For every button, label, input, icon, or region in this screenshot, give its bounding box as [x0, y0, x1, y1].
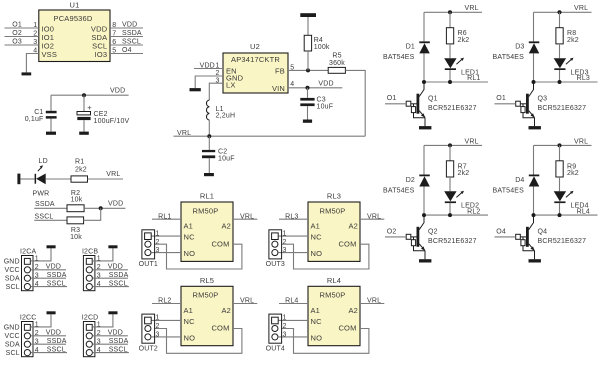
- ground Q1: [419, 126, 431, 129]
- svg-text:2,2uH: 2,2uH: [216, 112, 236, 119]
- wire header pin 1 to ground: [30, 314, 51, 327]
- svg-text:A1: A1: [311, 222, 321, 231]
- svg-text:SSDA: SSDA: [47, 338, 67, 345]
- svg-text:VCC: VCC: [4, 333, 19, 340]
- svg-text:RL1: RL1: [158, 213, 171, 220]
- svg-text:RL4: RL4: [577, 208, 590, 215]
- svg-text:A2: A2: [348, 222, 358, 231]
- junction D4-node: [532, 213, 536, 217]
- svg-text:RL5: RL5: [200, 276, 214, 285]
- wire: [449, 203, 451, 215]
- node RL2 (relay A1): [152, 298, 181, 305]
- svg-text:3: 3: [156, 332, 160, 339]
- svg-text:10uF: 10uF: [218, 156, 235, 163]
- svg-text:BCR521E6327: BCR521E6327: [538, 238, 587, 245]
- junction LED1-node: [448, 80, 452, 84]
- svg-text:1: 1: [35, 256, 39, 263]
- svg-text:A1: A1: [184, 306, 194, 315]
- connector OUT3: [266, 230, 287, 268]
- wire NC to header pin 1: [279, 235, 308, 237]
- wire U2 GND pin 2 to ground: [195, 76, 223, 88]
- svg-text:2k2: 2k2: [567, 37, 579, 44]
- svg-text:PWR: PWR: [33, 190, 50, 197]
- capacitor C3 10uF: [300, 88, 333, 120]
- LED LED4: [554, 191, 589, 210]
- node SSCL (header pin 4): [31, 280, 68, 287]
- svg-text:D1: D1: [406, 44, 415, 51]
- svg-text:BCR521E6327: BCR521E6327: [428, 238, 477, 245]
- wire: [533, 53, 535, 82]
- svg-text:C1: C1: [34, 109, 43, 116]
- junction VRL-R9: [558, 143, 562, 147]
- svg-text:SSDA: SSDA: [35, 201, 55, 208]
- svg-text:RL3: RL3: [577, 75, 590, 82]
- wire: [533, 145, 535, 174]
- wire U1 VSS to ground: [26, 54, 38, 73]
- wire: [559, 44, 561, 58]
- node SSDA (header pin 3): [92, 338, 128, 345]
- resistor R5 360k: [328, 53, 345, 74]
- svg-text:2k2: 2k2: [75, 166, 87, 173]
- svg-text:FB: FB: [275, 67, 285, 76]
- resistor R1 2k2: [71, 158, 88, 182]
- svg-text:SCL: SCL: [6, 350, 20, 357]
- svg-text:VRL: VRL: [574, 5, 588, 12]
- svg-text:360k: 360k: [329, 60, 345, 67]
- node O2 (Q2 base): [385, 228, 406, 237]
- svg-text:A2: A2: [221, 222, 231, 231]
- svg-text:O3: O3: [12, 39, 22, 46]
- wire COM to header pin 2: [155, 244, 242, 269]
- wire: [307, 17, 309, 35]
- svg-text:U1: U1: [70, 1, 80, 10]
- svg-text:BCR521E6327: BCR521E6327: [428, 105, 477, 112]
- ground I2CD: [108, 311, 117, 314]
- svg-text:OUT3: OUT3: [266, 261, 285, 268]
- wire: [423, 53, 425, 82]
- node O3 (U1 pin 3): [5, 39, 39, 46]
- junction D2-node: [422, 213, 426, 217]
- ground I2CC: [47, 311, 56, 314]
- node RL1: [424, 75, 488, 82]
- node O4 (Q4 base): [495, 228, 516, 237]
- svg-text:NC: NC: [311, 317, 323, 326]
- svg-text:I2CC: I2CC: [20, 314, 37, 321]
- node SSDA (header pin 3): [31, 272, 67, 279]
- connector I2CD: [82, 314, 101, 356]
- node VDD rail: [51, 87, 129, 95]
- node VRL (relay A2): [360, 213, 384, 220]
- svg-text:VRL: VRL: [465, 138, 479, 145]
- ground U1: [22, 72, 32, 75]
- power rail terminal R4: [300, 13, 316, 17]
- svg-text:BAT54ES: BAT54ES: [383, 54, 415, 61]
- svg-text:A1: A1: [184, 222, 194, 231]
- svg-text:BAT54ES: BAT54ES: [493, 54, 525, 61]
- IC U1 PCA9536D: [33, 1, 116, 62]
- svg-text:2: 2: [283, 323, 287, 330]
- connector I2CC: [20, 314, 39, 356]
- junction LED3-node: [558, 80, 562, 84]
- node RL3: [534, 75, 598, 82]
- svg-text:COM: COM: [211, 324, 229, 333]
- svg-text:D2: D2: [406, 177, 415, 184]
- svg-text:AP3417CKTR: AP3417CKTR: [231, 55, 280, 64]
- node SSCL (header pin 4): [92, 346, 128, 353]
- svg-text:LD: LD: [39, 158, 48, 165]
- svg-text:Q2: Q2: [428, 229, 438, 236]
- wire U2 FB pin 5: [288, 69, 328, 71]
- inductor L1 2,2uH: [206, 100, 235, 120]
- svg-text:RL4: RL4: [327, 276, 341, 285]
- transistor Q4 BCR521E6327: [516, 215, 586, 259]
- node RL1 (relay A1): [152, 213, 181, 220]
- wire header pin 1 to ground: [92, 248, 113, 261]
- svg-text:RL1: RL1: [467, 75, 480, 82]
- node SSCL (R3): [34, 214, 67, 221]
- svg-text:SSCL: SSCL: [47, 346, 66, 353]
- capacitor C2 10uF: [202, 136, 235, 173]
- wire: [449, 12, 451, 27]
- svg-text:O1: O1: [496, 95, 506, 102]
- I2CA pin name labels: [4, 259, 20, 291]
- svg-text:VRL: VRL: [465, 5, 479, 12]
- ground Q4: [529, 259, 541, 262]
- svg-text:SCL: SCL: [6, 284, 20, 291]
- svg-text:VDD: VDD: [46, 330, 61, 337]
- svg-text:RM50P: RM50P: [193, 206, 219, 215]
- junction VRL-R6: [448, 10, 452, 14]
- svg-text:GND: GND: [4, 259, 20, 266]
- transistor Q3 BCR521E6327: [516, 82, 586, 126]
- svg-text:10k: 10k: [70, 234, 82, 241]
- node VRL rail (Q2 circuit): [424, 138, 482, 145]
- wire: [533, 187, 535, 216]
- node O2 (U1 pin 2): [5, 30, 39, 37]
- node VDD (header pin 2): [31, 330, 67, 337]
- node VRL rail: [174, 130, 366, 137]
- wire: [21, 178, 35, 180]
- svg-text:SSCL: SSCL: [35, 214, 54, 221]
- LED LED2: [444, 191, 479, 210]
- svg-text:U2: U2: [250, 42, 260, 51]
- svg-text:2k2: 2k2: [458, 37, 470, 44]
- svg-text:D3: D3: [515, 44, 524, 51]
- svg-text:VDD: VDD: [110, 87, 125, 94]
- junction VIN-C3: [306, 86, 310, 90]
- svg-text:RM50P: RM50P: [193, 291, 219, 300]
- node VRL rail (Q1 circuit): [424, 5, 482, 12]
- junction VRL-R8: [558, 10, 562, 14]
- transistor Q1 BCR521E6327: [406, 82, 476, 126]
- svg-text:O4: O4: [496, 228, 506, 235]
- svg-text:OUT1: OUT1: [139, 261, 158, 268]
- resistor R4 100k: [304, 35, 330, 51]
- wire NO to header pin 3: [152, 252, 181, 254]
- svg-text:LX: LX: [226, 81, 236, 90]
- ground Q3: [529, 126, 541, 129]
- svg-text:A2: A2: [348, 306, 358, 315]
- node VDD (pullups): [101, 201, 126, 209]
- I2CC pin name labels: [4, 325, 20, 357]
- junction VDD-CE2: [82, 93, 86, 97]
- diode D3 BAT54ES: [493, 41, 540, 61]
- wire R5 to VRL rail: [345, 70, 365, 136]
- svg-text:Q3: Q3: [538, 96, 548, 103]
- svg-text:Q4: Q4: [538, 229, 548, 236]
- node VRL (relay A2): [233, 298, 257, 305]
- diode D2 BAT54ES: [383, 175, 430, 195]
- svg-text:1: 1: [156, 230, 160, 237]
- svg-text:VDD: VDD: [318, 80, 333, 87]
- svg-text:O4: O4: [122, 47, 132, 54]
- junction VRL-C2: [207, 134, 211, 138]
- svg-text:1: 1: [97, 322, 101, 329]
- svg-text:VSS: VSS: [42, 50, 58, 59]
- wire: [307, 51, 309, 70]
- capacitor C1 0,1uF: [25, 95, 57, 131]
- wire: [559, 70, 561, 82]
- svg-text:PCA9536D: PCA9536D: [54, 14, 93, 23]
- ground C1: [46, 132, 56, 135]
- svg-text:SSDA: SSDA: [47, 272, 67, 279]
- wire COM to header pin 2: [155, 329, 242, 354]
- node VDD (U2 VIN pin 4): [288, 80, 342, 87]
- node SSDA (R2): [34, 201, 67, 208]
- connector OUT4: [266, 314, 287, 352]
- svg-text:2: 2: [283, 239, 287, 246]
- node SSDA (U1 pin 7): [110, 30, 143, 37]
- wire NO to header pin 3: [152, 336, 181, 338]
- junction LED2-node: [448, 213, 452, 217]
- svg-text:VRL: VRL: [574, 138, 588, 145]
- wire: [449, 145, 451, 160]
- svg-text:O2: O2: [387, 228, 397, 235]
- wire COM to header pin 2: [282, 329, 369, 354]
- wire COM to header pin 2: [282, 244, 369, 269]
- connector I2CB: [82, 248, 101, 290]
- node RL2: [424, 208, 488, 215]
- power terminal: [17, 174, 20, 185]
- node VDD (U1 pin 8): [110, 22, 143, 29]
- node O1 (U1 pin 1): [5, 22, 39, 29]
- wire L1 to VRL rail: [208, 120, 210, 136]
- wire: [423, 187, 425, 216]
- svg-text:BAT54ES: BAT54ES: [383, 187, 415, 194]
- svg-text:VDD: VDD: [108, 201, 123, 208]
- ground I2CB: [108, 245, 117, 248]
- svg-text:A2: A2: [221, 306, 231, 315]
- svg-text:VRL: VRL: [240, 298, 254, 305]
- svg-text:100k: 100k: [314, 44, 330, 51]
- node O1 (Q3 base): [495, 95, 516, 104]
- diode D1 BAT54ES: [383, 41, 430, 61]
- svg-text:SDA: SDA: [5, 341, 20, 348]
- node RL4 (relay A1): [279, 298, 308, 305]
- wire NO to header pin 3: [279, 252, 308, 254]
- svg-text:BAT54ES: BAT54ES: [493, 187, 525, 194]
- svg-text:RL3: RL3: [285, 213, 298, 220]
- svg-text:2k2: 2k2: [458, 170, 470, 177]
- svg-text:VCC: VCC: [4, 267, 19, 274]
- node SSCL (header pin 4): [31, 346, 68, 353]
- svg-text:3: 3: [283, 247, 287, 254]
- ground C3: [303, 120, 312, 123]
- svg-text:NC: NC: [184, 233, 196, 242]
- wire: [559, 203, 561, 215]
- node VRL rail (Q4 circuit): [534, 138, 592, 145]
- junction FB-R4: [306, 68, 310, 72]
- svg-text:R3: R3: [71, 227, 80, 234]
- wire: [449, 70, 451, 82]
- node VDD (U2 EN pin 1): [194, 63, 223, 70]
- junction R2-R3: [99, 206, 103, 210]
- svg-text:2k2: 2k2: [567, 170, 579, 177]
- svg-text:RL3: RL3: [327, 192, 341, 201]
- svg-text:VRL: VRL: [106, 171, 120, 178]
- svg-text:OUT2: OUT2: [139, 346, 158, 353]
- wire NC to header pin 1: [152, 235, 181, 237]
- svg-text:NC: NC: [184, 317, 196, 326]
- svg-text:1: 1: [35, 322, 39, 329]
- svg-text:C2: C2: [218, 148, 227, 155]
- svg-text:SSDA: SSDA: [122, 30, 142, 37]
- resistor R6 2k2: [446, 28, 469, 44]
- junction LED4-node: [558, 213, 562, 217]
- relay RL3 RM50P: [308, 192, 360, 262]
- svg-text:RL2: RL2: [158, 298, 171, 305]
- resistor R9 2k2: [556, 161, 579, 177]
- svg-text:0,1uF: 0,1uF: [25, 116, 44, 123]
- svg-text:1: 1: [97, 256, 101, 263]
- node VDD (header pin 2): [92, 264, 128, 271]
- svg-text:SSCL: SSCL: [109, 346, 128, 353]
- svg-text:NO: NO: [311, 249, 323, 258]
- svg-text:VIN: VIN: [272, 84, 285, 93]
- svg-text:R1: R1: [75, 158, 84, 165]
- node VRL (relay A2): [233, 213, 257, 220]
- svg-text:VRL: VRL: [177, 130, 191, 137]
- svg-text:NO: NO: [184, 249, 196, 258]
- svg-text:SSDA: SSDA: [109, 272, 129, 279]
- svg-text:SSCL: SSCL: [47, 280, 66, 287]
- LED LD PWR: [33, 158, 50, 197]
- svg-text:O1: O1: [12, 22, 22, 29]
- svg-text:3: 3: [156, 247, 160, 254]
- svg-text:D4: D4: [515, 177, 524, 184]
- svg-text:RM50P: RM50P: [320, 206, 346, 215]
- node SSCL (U1 pin 6): [110, 39, 143, 46]
- wire NC to header pin 1: [152, 319, 181, 321]
- svg-text:NO: NO: [311, 334, 323, 343]
- svg-text:SDA: SDA: [5, 275, 20, 282]
- relay RL4 RM50P: [308, 276, 360, 346]
- wire: [559, 145, 561, 160]
- connector OUT1: [139, 230, 160, 268]
- wire R3 to junction: [84, 208, 101, 220]
- svg-text:1: 1: [283, 230, 287, 237]
- svg-text:I2CD: I2CD: [82, 314, 99, 321]
- svg-text:NC: NC: [311, 233, 323, 242]
- svg-text:VDD: VDD: [108, 264, 123, 271]
- svg-text:VDD: VDD: [200, 63, 215, 70]
- wire header pin 1 to ground: [92, 314, 113, 327]
- LED LED1: [444, 58, 479, 77]
- svg-text:10k: 10k: [71, 197, 83, 204]
- svg-text:NO: NO: [184, 334, 196, 343]
- connector OUT2: [139, 314, 160, 352]
- svg-text:10uF: 10uF: [317, 103, 334, 110]
- node VRL (relay A2): [360, 298, 384, 305]
- node RL4: [534, 208, 598, 215]
- svg-text:COM: COM: [338, 324, 356, 333]
- svg-text:VDD: VDD: [46, 264, 61, 271]
- ground C2: [204, 173, 214, 176]
- wire NC to header pin 1: [279, 319, 308, 321]
- svg-text:1: 1: [156, 315, 160, 322]
- node VRL rail (Q3 circuit): [534, 5, 592, 12]
- node O1 (Q1 base): [385, 95, 406, 104]
- ground CE2: [79, 132, 89, 135]
- svg-text:1: 1: [283, 315, 287, 322]
- wire: [533, 12, 535, 41]
- svg-text:RL2: RL2: [467, 208, 480, 215]
- wire: [423, 145, 425, 174]
- svg-text:3: 3: [283, 332, 287, 339]
- svg-text:2: 2: [156, 239, 160, 246]
- wire: [449, 44, 451, 58]
- IC U2 AP3417CKTR: [216, 42, 295, 93]
- wire: [84, 207, 101, 209]
- ground I2CA: [47, 245, 56, 248]
- node SSDA (header pin 3): [92, 272, 128, 279]
- connector I2CA: [20, 248, 39, 290]
- node VDD (header pin 2): [31, 264, 67, 271]
- svg-text:COM: COM: [338, 239, 356, 248]
- svg-text:I2CB: I2CB: [82, 248, 98, 255]
- wire NO to header pin 3: [279, 336, 308, 338]
- wire: [46, 178, 71, 180]
- svg-text:VRL: VRL: [367, 213, 381, 220]
- wire header pin 1 to ground: [30, 248, 51, 261]
- junction D3-node: [532, 80, 536, 84]
- resistor R8 2k2: [556, 28, 579, 44]
- svg-text:GND: GND: [4, 325, 20, 332]
- node VDD (header pin 2): [92, 330, 128, 337]
- node RL3 (relay A1): [279, 213, 308, 220]
- svg-text:VDD: VDD: [122, 22, 137, 29]
- transistor Q2 BCR521E6327: [406, 215, 476, 259]
- node SSCL (header pin 4): [92, 280, 128, 287]
- svg-text:4: 4: [290, 81, 294, 88]
- svg-text:RL4: RL4: [285, 298, 298, 305]
- svg-text:OUT4: OUT4: [266, 346, 285, 353]
- svg-text:VRL: VRL: [367, 298, 381, 305]
- svg-text:COM: COM: [211, 239, 229, 248]
- relay RL5 RM50P: [181, 276, 233, 346]
- ground Q2: [419, 259, 431, 262]
- svg-text:O1: O1: [387, 95, 397, 102]
- svg-text:RL1: RL1: [200, 192, 214, 201]
- svg-text:RM50P: RM50P: [320, 291, 346, 300]
- svg-text:Q1: Q1: [428, 96, 438, 103]
- svg-text:BCR521E6327: BCR521E6327: [538, 105, 587, 112]
- svg-text:2: 2: [156, 323, 160, 330]
- wire: [449, 177, 451, 191]
- junction D1-node: [422, 80, 426, 84]
- svg-text:SSCL: SSCL: [109, 280, 128, 287]
- junction VRL-R7: [448, 143, 452, 147]
